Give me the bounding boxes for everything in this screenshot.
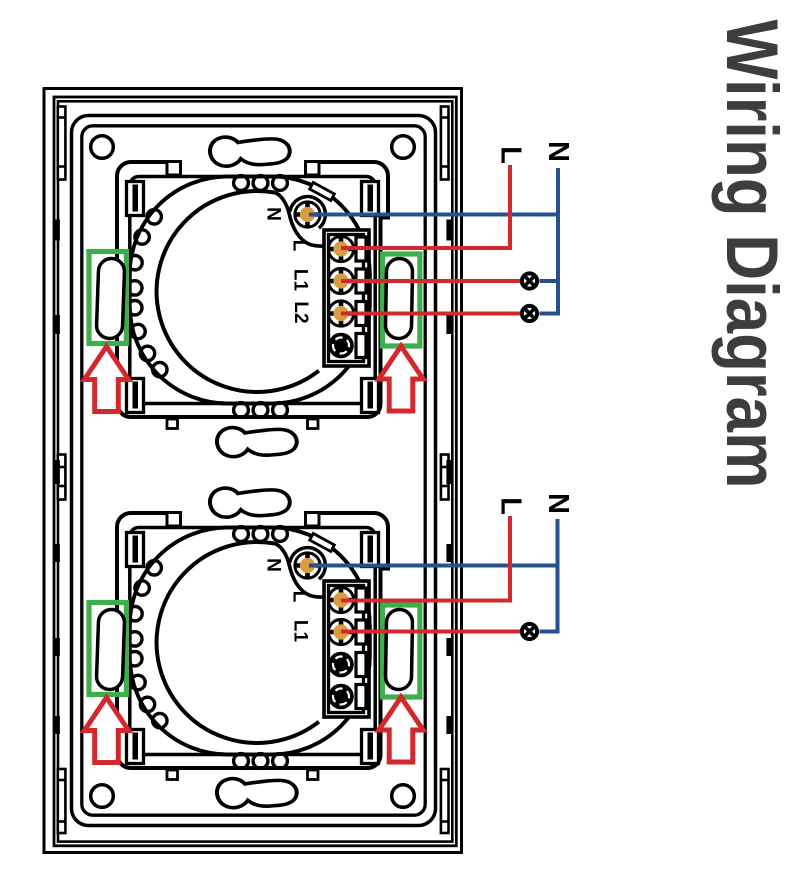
terminal screw L module 2 xyxy=(328,587,353,612)
frame notch top-right module 2 xyxy=(306,513,320,527)
switch mounting frame inner edge module 1 xyxy=(130,177,375,404)
plate screw hole bottom-left xyxy=(91,785,114,808)
wire neutral blue module 1 xyxy=(309,168,558,314)
wall panel third frame xyxy=(58,101,452,841)
unused terminal b module 2 xyxy=(328,684,354,710)
left rail bracket middle xyxy=(58,455,66,500)
lamp 2 module 1 xyxy=(522,306,537,321)
fixing clamp bottom-left module 1 xyxy=(127,379,144,413)
wire neutral blue module 2 xyxy=(309,519,558,632)
N terminal boss module 1 xyxy=(290,197,326,233)
frame notch bottom-left module 2 xyxy=(167,770,178,780)
N terminal boss arc module 2 xyxy=(290,548,325,580)
gear notches top module 2 xyxy=(234,527,288,542)
plate screw hole bottom-right xyxy=(392,785,415,808)
frame outer bottom edge overdraw module 1 xyxy=(150,415,360,419)
green highlight box left module 2 xyxy=(89,603,126,695)
left rail tab 1 xyxy=(55,220,60,241)
wire L1 red module 2 xyxy=(341,630,520,634)
terminal clamp tab 3 module 1 xyxy=(356,302,366,326)
svg-text:N: N xyxy=(542,493,574,514)
N terminal boss module 2 xyxy=(290,548,326,584)
wire L2 red module 1 xyxy=(341,312,520,316)
svg-text:L: L xyxy=(494,497,526,515)
wall panel outer frame xyxy=(44,89,462,853)
plate slot (top peanut) module 2 xyxy=(210,488,290,517)
frame notch top-left module 1 xyxy=(167,162,181,176)
terminal clamp tab 2 module 2 xyxy=(356,620,366,644)
terminal screw L module 1 xyxy=(328,236,353,261)
gap in frame outer top edge module 2 xyxy=(181,509,307,516)
frame notch bottom-right module 1 xyxy=(308,419,319,429)
terminal screw N module 1 xyxy=(295,202,320,227)
terminal block housing module 1 xyxy=(324,230,369,366)
wire live L red module 1 xyxy=(341,165,510,248)
green highlight box right module 2 xyxy=(383,605,420,697)
fixing clamp top-left module 1 xyxy=(127,182,144,216)
red arrow left module 2 xyxy=(84,698,128,763)
green highlight box left module 1 xyxy=(89,252,126,344)
frame notch top-right module 1 xyxy=(306,162,320,176)
left rail tab 4 xyxy=(55,638,60,656)
frame notch top-left module 2 xyxy=(167,513,181,527)
plate slot (bottom peanut) module 1 xyxy=(217,428,297,457)
terminal clamp tab 4 module 1 xyxy=(356,334,366,358)
switch body outer rim module 1 xyxy=(130,177,370,404)
switch module 2 assembly xyxy=(84,488,423,808)
gap in frame outer top edge module 1 xyxy=(181,158,307,165)
left rail tab 3 xyxy=(55,544,60,562)
red arrow right module 2 xyxy=(379,697,423,762)
gear notches top module 1 xyxy=(234,176,288,191)
switch body outer rim module 2 xyxy=(130,528,370,755)
oval slot left module 2 xyxy=(96,609,125,690)
N terminal boss arc module 1 xyxy=(290,197,325,229)
svg-text:N: N xyxy=(262,558,283,572)
svg-text:L2: L2 xyxy=(290,301,311,323)
fixing clamp top-left module 2 xyxy=(127,533,144,567)
fixing clamp bottom-right module 1 xyxy=(362,379,379,413)
terminal clamp tab 4 module 2 xyxy=(356,685,366,709)
oval slot left module 1 xyxy=(96,258,125,339)
fixing clamp top-right module 1 xyxy=(362,182,379,216)
red arrow left module 1 xyxy=(84,347,128,412)
switch mounting frame outer edge module 2 xyxy=(117,513,388,768)
rim overdraw module 1 xyxy=(130,177,370,404)
gear teeth on left rim module 2 xyxy=(128,561,167,728)
red arrow right module 1 xyxy=(379,346,423,411)
oval slot right module 2 xyxy=(385,609,412,689)
plate screw hole top-right xyxy=(392,136,415,159)
right rail tab 3 xyxy=(446,544,451,562)
rim overdraw module 2 xyxy=(130,528,370,755)
right rail tab 2 xyxy=(446,315,451,334)
housing contour around N screw module 2 xyxy=(275,544,327,598)
tilted slot near N terminal module 2 xyxy=(310,533,335,551)
plate slot (bottom peanut) module 2 xyxy=(217,779,297,808)
plate screw hole top-left xyxy=(91,136,114,159)
wall panel second frame xyxy=(54,97,456,846)
svg-text:L: L xyxy=(288,240,309,252)
terminal block inner edge module 2 xyxy=(329,586,364,713)
right rail tab 1 xyxy=(446,220,451,241)
switch mounting frame outer edge module 1 xyxy=(117,162,388,417)
right rail bracket top xyxy=(441,107,449,180)
terminal block inner edge module 1 xyxy=(329,235,364,362)
terminal screw N module 2 xyxy=(295,553,320,578)
switch body inner circle module 2 xyxy=(157,542,319,743)
housing contour around N screw module 1 xyxy=(275,193,327,247)
terminal clamp tab 1 module 2 xyxy=(356,588,366,612)
lamp module 2 xyxy=(522,624,537,639)
terminal block housing module 2 xyxy=(324,581,369,717)
gear notches bottom module 2 xyxy=(234,754,288,769)
gear teeth on left rim module 1 xyxy=(128,210,167,377)
terminal screw L1 module 2 xyxy=(328,619,353,644)
svg-text:L1: L1 xyxy=(289,269,310,292)
left rail tab 2 xyxy=(55,315,60,334)
left rail bracket top xyxy=(58,107,66,180)
switch mounting frame inner edge module 2 xyxy=(130,528,375,755)
wire L1 red module 1 xyxy=(341,279,520,283)
switch module 1 assembly xyxy=(84,137,423,457)
frame outer bottom edge overdraw module 2 xyxy=(150,766,360,770)
fixing clamp bottom-left module 2 xyxy=(127,730,144,764)
right rail bracket bottom xyxy=(441,769,449,833)
unused terminal module 1 xyxy=(328,333,354,359)
svg-text:L: L xyxy=(288,591,309,603)
left rail bracket bottom xyxy=(58,769,66,833)
plate slot (top peanut) module 1 xyxy=(210,137,290,166)
terminal clamp tab 3 module 2 xyxy=(356,653,366,677)
mounting plate outer edge xyxy=(72,116,436,826)
svg-text:L: L xyxy=(494,146,526,164)
right rail tab 5 xyxy=(446,716,451,734)
right rail bracket middle xyxy=(441,455,449,500)
terminal screw L1 module 1 xyxy=(328,268,353,293)
svg-text:L1: L1 xyxy=(289,620,310,643)
terminal clamp tab 1 module 1 xyxy=(356,237,366,261)
fixing clamp top-right module 2 xyxy=(362,533,379,567)
right rail tab 4 xyxy=(446,638,451,656)
terminal screw L2 module 1 xyxy=(328,301,353,326)
tilted slot near N terminal module 1 xyxy=(310,182,335,200)
switch body inner circle module 1 xyxy=(157,191,319,392)
unused terminal a module 2 xyxy=(328,652,354,678)
svg-text:N: N xyxy=(542,141,574,162)
lamp 1 module 1 xyxy=(522,273,537,288)
left rail middle lug xyxy=(55,460,60,484)
gear notches bottom module 1 xyxy=(234,403,288,418)
frame notch bottom-right module 2 xyxy=(308,770,319,780)
frame notch bottom-left module 1 xyxy=(167,419,178,429)
green highlight box right module 1 xyxy=(383,254,420,346)
mounting plate inner edge xyxy=(82,126,425,815)
svg-text:Wiring Diagram: Wiring Diagram xyxy=(711,20,790,489)
svg-text:N: N xyxy=(262,207,283,221)
right rail middle lug xyxy=(446,460,451,484)
fixing clamp bottom-right module 2 xyxy=(362,730,379,764)
left rail tab 5 xyxy=(55,716,60,734)
oval slot right module 1 xyxy=(385,258,412,338)
wire live L red module 2 xyxy=(341,516,510,601)
terminal clamp tab 2 module 1 xyxy=(356,269,366,293)
